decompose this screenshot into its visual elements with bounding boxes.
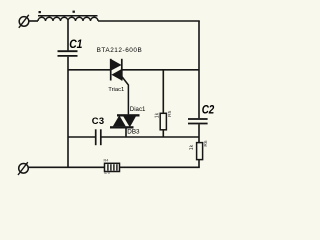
svg-text:C1: C1 (69, 37, 82, 51)
svg-text:1k: 1k (189, 144, 195, 150)
svg-text:DB3: DB3 (127, 128, 140, 135)
svg-text:Triac1: Triac1 (108, 87, 124, 93)
svg-text:R6: R6 (203, 140, 209, 146)
svg-text:R4: R4 (104, 159, 109, 163)
svg-text:C2: C2 (202, 102, 215, 116)
svg-text:470: 470 (104, 171, 110, 175)
svg-text:BTA212-600B: BTA212-600B (97, 47, 143, 54)
svg-text:R5: R5 (167, 110, 173, 116)
svg-text:C3: C3 (92, 115, 105, 126)
svg-text:Diac1: Diac1 (130, 106, 146, 113)
svg-text:1k: 1k (155, 112, 161, 118)
